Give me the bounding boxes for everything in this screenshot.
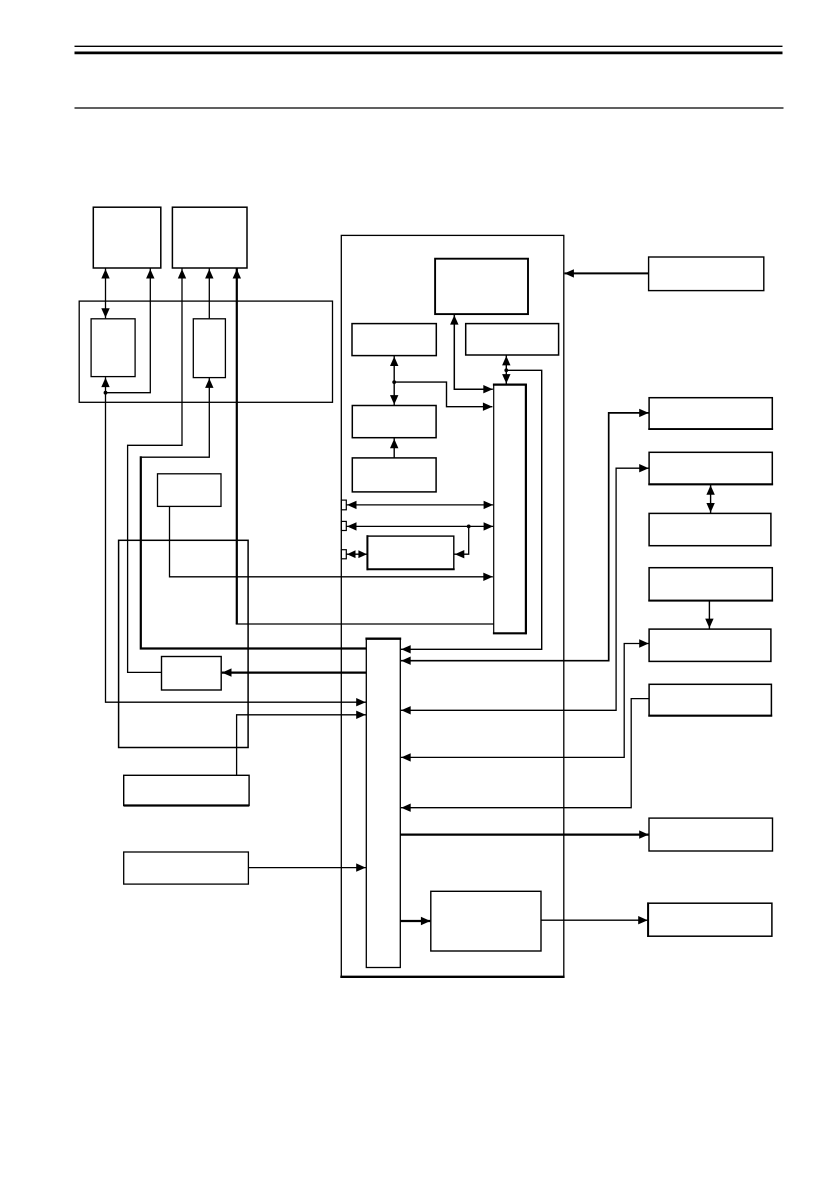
box D5 [352,458,436,492]
wire B down jog to F3 left [128,269,187,673]
box F4 [124,775,249,805]
wire D2 to D4 double arrow [390,356,398,405]
container main board outline [340,235,564,976]
wire E5 to E6 arrow [705,601,713,629]
wire E3 to E4 double arrow [706,485,714,513]
box D1 (CPU top) [435,259,528,314]
connector tab 1 [341,500,346,510]
wire D3 to D6 top double arrow [502,355,510,384]
junction dot on D2-D4 wire [392,380,396,384]
junction dot on tab2 wire [467,525,471,529]
header rule thick [75,52,783,55]
box D7 [367,535,455,570]
box C2 (inner right) [193,319,225,378]
wire D8 to E8 thick [401,830,649,838]
wire D8 right to E6 double arrow [401,639,649,761]
wire D5 up to D4 [390,438,398,457]
wire D1 bottom to D6 left double arrow [450,315,493,394]
wire tab3 to D7 double arrow [347,550,368,558]
wire F4 up to D8 left [237,711,366,776]
box B (top-left unit 2) [172,207,247,268]
wire B to C2 top [205,269,213,319]
junction dot in box C [104,391,108,395]
wire tab1 to D6 double arrow [347,501,494,509]
wire C1 bottom to junction to D8 [101,377,366,706]
wire D8 left to F3 right thick [222,668,366,676]
box D6 (tall IC left) [493,384,527,635]
wire D9 to E9 [541,916,648,924]
wire E1 to container thick [564,269,648,277]
box D4 [352,406,436,438]
box A (top-left unit 1) [93,207,161,268]
wire branch tab2 line to D7 right [455,526,469,558]
box E3 [648,452,773,484]
wire branch D3 to D8 right [401,370,542,653]
box F3 [162,657,222,691]
box F5 [124,852,249,884]
header rule lower [75,107,784,109]
box E8 [649,818,773,851]
box E1 [649,257,764,291]
wire D8 right to E2 double arrow [401,409,649,665]
box E9 [648,902,772,937]
wire A to C1 double arrow [101,269,109,319]
box E5 [648,568,773,601]
wire D8 to D9 thick [401,917,431,925]
box D9 [431,891,541,951]
wire tab2 to D6 double arrow [347,522,494,530]
junction dot on D3-D6 wire [504,368,508,372]
wire F5 to D8 left [249,863,366,871]
wire branch D2-D4 to D6 left [394,382,492,411]
box E4 [649,513,771,545]
box F1 [158,474,222,507]
wire B thick down to D6 left [233,269,494,625]
box F2 (group outline) [119,540,249,747]
wire F1 down to D6 left [170,507,493,581]
box D2 [352,324,436,356]
wire C2 bottom jog to D8 left [141,378,366,649]
wire E7 to D8 right [401,699,649,812]
box E2 [648,398,773,429]
connector tab 3 [341,550,346,559]
connector tab 2 [341,521,346,530]
wire junction branch up to A [106,269,155,393]
box D3 [466,324,559,355]
box C1 (inner left) [91,319,135,377]
box D8 (tall driver IC) [365,639,401,968]
wire D8 right to E3 double arrow [401,464,649,715]
box E7 [648,684,772,715]
header rule thin top [75,45,783,47]
box E6 [649,629,771,661]
box C (group outline) [79,301,332,402]
